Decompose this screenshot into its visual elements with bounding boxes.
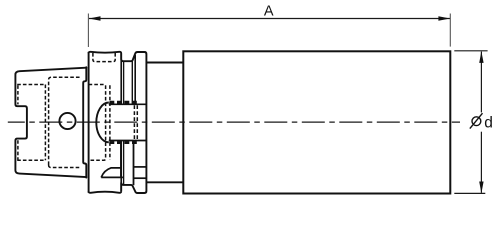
dimension A arrow right [438, 16, 450, 20]
diameter symbol [470, 113, 483, 128]
groove bottom left edge (lower) [123, 141, 125, 185]
dimension d line lower [480, 132, 482, 193]
dimension d arrow down [479, 182, 483, 194]
dimension A extension line right [449, 14, 451, 47]
groove bottom right edge (upper) [131, 61, 133, 104]
collar [138, 52, 147, 193]
dimension d arrow up [479, 51, 483, 63]
neck [146, 63, 183, 183]
hidden bore small (dashed rect in shank) [17, 85, 45, 161]
thread crest dashes (lower) [110, 141, 138, 144]
centerline [8, 121, 460, 123]
dimension d line upper [480, 52, 482, 113]
thread crest dashes (upper) [110, 101, 138, 104]
hidden bore inner line (dashed) [109, 85, 111, 159]
dimension d extension line top [454, 50, 487, 52]
bore shoulder line (upper) [109, 103, 147, 105]
shank outline (HSK taper body) [15, 67, 86, 177]
fin (lower gripper detail) [101, 141, 123, 178]
hidden lines mid-band (dashed pair right of ball) [134, 105, 137, 140]
flange back face edge (upper) [120, 54, 122, 105]
svg-text:d: d [484, 114, 493, 131]
flange back face edge (lower) [120, 141, 122, 192]
flange V-groove (bottom) [121, 183, 137, 193]
collar front face edge (lower) [133, 141, 135, 186]
bore shoulder line (lower) [109, 140, 147, 142]
flange outline [89, 52, 122, 193]
flange V-groove (top) [121, 52, 137, 61]
drive slot lower edge (lower band) [134, 177, 147, 179]
drive-slot hole circle [59, 113, 75, 129]
dimension d extension line bottom [454, 192, 485, 194]
dimension A extension line left [87, 14, 89, 48]
svg-text:A: A [264, 4, 274, 20]
clamping ball arc [96, 103, 108, 143]
groove bottom left edge (upper) [123, 61, 125, 104]
collar front face edge (upper) [134, 55, 136, 104]
dimension A line [89, 18, 450, 20]
hidden V-groove flange top (dashed U) [93, 53, 115, 62]
hidden bore large (dashed in shank, stepped) [49, 77, 81, 167]
dimension A arrow left [89, 16, 101, 20]
hidden bore through flange (dashed rect) [89, 85, 106, 161]
cylinder body [183, 51, 450, 193]
drive slot upper edge (lower band) [134, 166, 147, 168]
